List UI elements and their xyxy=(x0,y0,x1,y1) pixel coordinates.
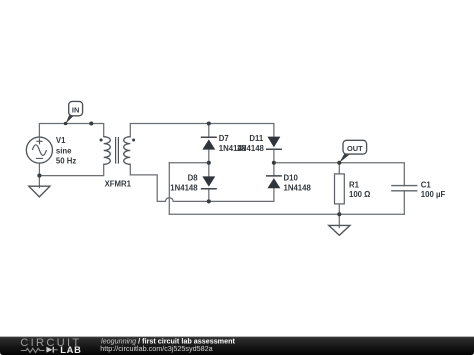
resistor R1 xyxy=(335,174,345,204)
wire transformer secondary top to bridge top xyxy=(130,124,274,137)
svg-text:1N4148: 1N4148 xyxy=(284,183,312,192)
wire V1 top to transformer primary top xyxy=(39,124,103,138)
node dot (flag IN attach) xyxy=(64,122,68,126)
wire D11 bottom to output node xyxy=(273,149,275,163)
svg-text:XFMR1: XFMR1 xyxy=(105,180,132,189)
diode D11 xyxy=(266,137,282,150)
node junction V1 bottom xyxy=(37,174,41,178)
logo diode xyxy=(46,347,52,353)
svg-text:R1: R1 xyxy=(349,180,360,189)
wire mid-left node to D7/D8 junction xyxy=(169,162,209,164)
phase dot primary xyxy=(100,139,103,142)
node junction top-left xyxy=(89,121,93,125)
core xyxy=(116,137,119,164)
transformer XFMR1 xyxy=(104,137,131,165)
diode D8 xyxy=(201,176,217,188)
svg-text:sine: sine xyxy=(56,147,72,156)
node junction D7/D8 xyxy=(207,161,211,165)
svg-text:D11: D11 xyxy=(249,134,264,143)
phase dot secondary xyxy=(132,139,135,142)
flag OUT xyxy=(339,140,366,163)
ground (right, under R1) xyxy=(329,225,350,235)
wire D7 top xyxy=(208,124,210,138)
primary winding xyxy=(104,137,111,165)
svg-text:LAB: LAB xyxy=(60,345,81,355)
svg-text:OUT: OUT xyxy=(347,144,363,153)
ground (left, under V1) xyxy=(29,186,50,197)
wire vertical mid-left to bottom rail xyxy=(168,163,170,215)
capacitor C1 xyxy=(391,186,417,191)
svg-text:C1: C1 xyxy=(421,180,432,189)
wire transformer secondary bottom to bridge bottom (with hop) xyxy=(130,164,274,201)
node junction R1 bottom xyxy=(337,212,341,216)
svg-text:100 Ω: 100 Ω xyxy=(349,190,370,199)
wire D7 bottom to mid node xyxy=(208,150,210,163)
svg-text:IN: IN xyxy=(72,106,79,115)
wire bottom rail xyxy=(169,213,404,215)
svg-text:V1: V1 xyxy=(56,136,66,145)
wire transformer primary bottom to V1 bottom node xyxy=(39,164,103,175)
svg-text:http://circuitlab.com/c3j525sy: http://circuitlab.com/c3j525syd582a xyxy=(100,344,212,353)
svg-text:D8: D8 xyxy=(188,174,199,183)
diode D7 xyxy=(201,137,217,149)
wire ground stem right xyxy=(338,214,340,227)
wire C1 bottom xyxy=(403,191,405,215)
node junction D11/D10 xyxy=(272,161,276,165)
flag IN xyxy=(66,101,83,123)
voltage source V1 xyxy=(26,137,52,163)
secondary winding xyxy=(124,137,131,165)
wire D8 top xyxy=(208,163,210,177)
wire D8 bottom xyxy=(208,189,210,202)
svg-text:50 Hz: 50 Hz xyxy=(56,156,76,165)
node junction D8 bottom xyxy=(207,199,211,203)
node junction D7 top xyxy=(207,121,211,125)
footer bar xyxy=(0,336,474,355)
svg-text:1N4148: 1N4148 xyxy=(237,144,265,153)
logo resistor zigzag xyxy=(21,348,45,352)
wire V1 bottom to ground node xyxy=(38,163,40,187)
wire output mid rail to C1 top xyxy=(274,163,404,186)
wire D10 top xyxy=(273,163,275,176)
svg-text:1N4148: 1N4148 xyxy=(170,183,198,192)
node junction R1 top / OUT attach xyxy=(337,161,341,165)
diode D10 xyxy=(266,176,282,188)
wire R1 top xyxy=(338,163,340,174)
wire R1 bottom xyxy=(338,204,340,214)
svg-text:D7: D7 xyxy=(219,134,229,143)
svg-text:D10: D10 xyxy=(284,174,299,183)
svg-text:100 µF: 100 µF xyxy=(421,190,446,199)
